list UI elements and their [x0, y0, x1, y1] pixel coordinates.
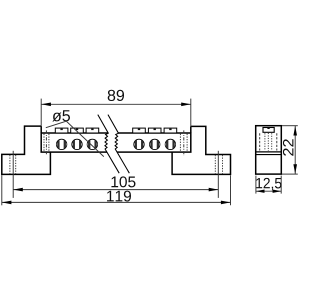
- ø5 leader line: [46, 121, 104, 156]
- label 105: [111, 176, 135, 187]
- screw 3: [87, 139, 98, 150]
- label 22: [283, 139, 293, 156]
- busbar right edge upper segment: [190, 126, 192, 133]
- left foot hole centre line / 105 extension line: [12, 151, 14, 198]
- 12,5 arrow right: [273, 190, 282, 193]
- hidden hole right foot: edge dashes: [214, 155, 216, 174]
- right bracket (ear + foot): [172, 126, 230, 174]
- 12,5 extension line left: [255, 176, 257, 194]
- label 12,5: [256, 178, 281, 190]
- side view bar bottom line: [256, 151, 282, 153]
- label 119: [107, 191, 131, 202]
- left bracket (foot + ear): [2, 126, 51, 174]
- 12,5 arrow left: [256, 190, 265, 193]
- hidden hole right end: edge dashes: [179, 134, 181, 152]
- 12,5 extension line right: [280, 176, 282, 194]
- label 89: [108, 90, 124, 101]
- 89 extension line right: [190, 99, 192, 127]
- 119 arrow left: [2, 201, 12, 205]
- clamp slot 4: [133, 128, 146, 133]
- 119 extension line left: [1, 175, 3, 205]
- 22 arrow up: [293, 126, 297, 136]
- side view foot top line: [256, 154, 282, 156]
- 22 arrow down: [293, 164, 297, 174]
- screw 4: [134, 139, 145, 150]
- right foot hole centre line / 105 extension line: [217, 151, 219, 198]
- busbar body: [41, 133, 191, 152]
- hidden hole left end: centre line: [45, 130, 47, 154]
- busbar left edge upper segment: [40, 126, 42, 133]
- hidden hole left end: edge dashes: [43, 134, 45, 152]
- clamp slot 3: [86, 128, 99, 133]
- 89 arrow right: [181, 103, 191, 107]
- 22 dimension line: [294, 126, 296, 174]
- side view clamp slot: [263, 128, 274, 133]
- clamp slot 5: [148, 128, 161, 133]
- hidden hole left foot: edge dashes: [9, 155, 11, 174]
- 22 extension line bottom: [282, 173, 298, 175]
- label ø5: [52, 110, 70, 121]
- clamp slot 6: [164, 128, 177, 133]
- 105 arrow left: [13, 188, 23, 192]
- 105 arrow right: [209, 188, 219, 192]
- screw 2: [72, 139, 83, 150]
- side view hidden hole dashes: [259, 133, 261, 150]
- 12,5 dimension line: [256, 190, 281, 192]
- clamp slot 2: [71, 128, 84, 133]
- 89 arrow left: [41, 103, 51, 107]
- break gap eraser: [98, 115, 130, 174]
- 119 arrow right: [221, 201, 231, 205]
- 89 dimension line: [41, 103, 191, 105]
- 119 dimension line: [2, 201, 231, 203]
- 105 dimension line: [13, 189, 218, 191]
- hidden hole right end: centre line: [183, 130, 185, 156]
- break line right: [108, 115, 129, 174]
- screw 6: [165, 139, 176, 150]
- screw 1: [56, 139, 67, 150]
- clamp slot 1: [55, 128, 68, 133]
- 119 extension line right: [230, 175, 232, 205]
- 89 extension line left: [40, 99, 42, 127]
- break line left: [98, 115, 119, 174]
- side view body: [256, 126, 282, 174]
- screw 5: [149, 139, 160, 150]
- 22 extension line top: [282, 125, 298, 127]
